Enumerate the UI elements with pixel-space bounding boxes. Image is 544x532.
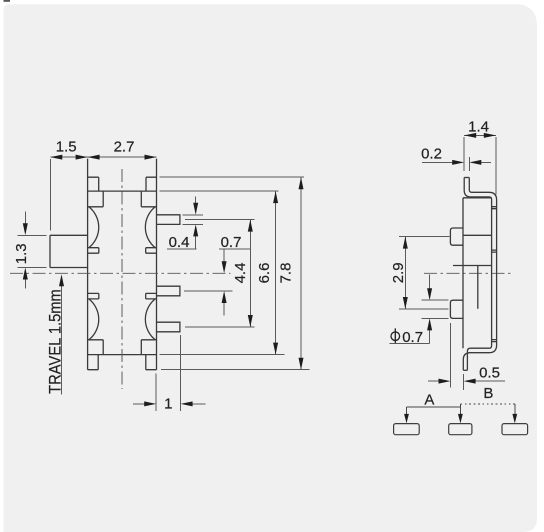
svg-text:1.3: 1.3: [13, 243, 30, 264]
svg-text:4.4: 4.4: [232, 263, 249, 284]
svg-text:1.4: 1.4: [468, 119, 489, 136]
svg-text:7.8: 7.8: [278, 263, 295, 284]
svg-text:1.5: 1.5: [56, 139, 77, 156]
svg-text:0.4: 0.4: [169, 234, 190, 251]
svg-text:TRAVEL 1.5mm: TRAVEL 1.5mm: [47, 289, 65, 394]
svg-text:0.7: 0.7: [221, 234, 242, 251]
svg-text:0.5: 0.5: [479, 365, 500, 382]
svg-text:1: 1: [164, 395, 172, 412]
svg-text:A: A: [424, 391, 434, 408]
svg-text:0.2: 0.2: [421, 146, 442, 163]
svg-text:2.9: 2.9: [390, 262, 407, 283]
svg-text:0.7: 0.7: [402, 329, 423, 346]
svg-text:B: B: [483, 385, 493, 402]
svg-text:2.7: 2.7: [114, 139, 135, 156]
svg-text:6.6: 6.6: [256, 263, 273, 284]
